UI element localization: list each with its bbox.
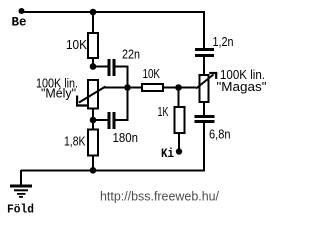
resistor 10K (horizontal, wiper line) <box>142 84 163 91</box>
wire right rail top corner down to 1,2n <box>203 11 205 49</box>
svg-text:Föld: Föld <box>7 203 34 217</box>
resistor 10K (vertical, left branch) <box>88 33 98 58</box>
wire 22n right plate to vertical riser <box>116 66 129 68</box>
junction ground rail / 1,8K <box>90 167 97 174</box>
svg-text:"Mély": "Mély" <box>41 86 76 101</box>
wire R10K bottom to junction A <box>92 58 94 67</box>
svg-text:6,8n: 6,8n <box>209 127 231 142</box>
potentiometer bass wiper arrow diagonal <box>79 87 106 103</box>
svg-text:http://bss.freeweb.hu/: http://bss.freeweb.hu/ <box>100 190 220 204</box>
wire top junction down to R 10K <box>92 11 94 33</box>
junction top of left branch <box>90 9 97 16</box>
junction riser on wiper line <box>124 84 131 91</box>
wire treble pot bottom to 6,8n <box>203 102 205 116</box>
capacitor 6,8n <box>195 115 215 123</box>
potentiometer treble arrowhead <box>209 72 217 79</box>
ground symbol <box>10 185 32 198</box>
wire top rail from Be to right corner <box>21 11 204 13</box>
potentiometer bass arrowhead <box>76 96 87 107</box>
wire junction A to 22n left plate <box>93 66 108 68</box>
wire ground stub down from rail <box>20 170 22 185</box>
svg-text:10K: 10K <box>66 37 87 52</box>
capacitor 180n <box>108 112 116 129</box>
svg-text:1,2n: 1,2n <box>213 34 234 49</box>
svg-text:10K: 10K <box>143 66 161 81</box>
wire 1K bottom to Ki terminal <box>178 133 180 152</box>
node Ki output terminal dot <box>176 148 182 154</box>
wire 180n right plate to vertical riser <box>116 119 129 121</box>
node Be input terminal dot <box>19 8 25 14</box>
wire 6,8n bottom down to ground rail <box>203 123 205 172</box>
potentiometer treble wiper arrow diagonal <box>196 75 214 89</box>
wire junction C down to R 1K <box>178 88 180 108</box>
svg-text:180n: 180n <box>113 130 139 145</box>
potentiometer 100K lin. "Magas" (treble) body <box>200 75 209 102</box>
svg-text:Be: Be <box>12 16 27 30</box>
resistor 1,8K <box>88 130 98 156</box>
svg-text:"Magas": "Magas" <box>217 79 267 94</box>
wire ground rail (bottom) <box>21 169 204 171</box>
wire junction B to 180n left plate <box>93 119 108 121</box>
svg-text:1K: 1K <box>158 104 169 119</box>
potentiometer 100K lin. "Mely" (bass) body <box>88 80 98 109</box>
wire vertical riser x127.5 joining 22n, wiper line, 180n <box>127 67 129 121</box>
svg-text:22n: 22n <box>122 47 140 62</box>
wire pot bottom to junction B <box>92 109 94 130</box>
wire 1,2n bottom to treble pot top <box>203 57 205 76</box>
capacitor 22n <box>108 59 116 76</box>
junction C (wiper line / 1K output) <box>175 84 182 91</box>
wire 1,8K bottom lead to ground rail <box>92 156 94 171</box>
wire wiper line (bass wiper to treble wiper) <box>104 87 196 89</box>
junction A (10K / pot top / 22n) <box>90 63 97 70</box>
svg-text:Ki: Ki <box>161 147 174 161</box>
junction B (pot bottom / 180n / 1,8K) <box>90 117 97 124</box>
capacitor 1,2n <box>195 48 214 57</box>
resistor 1K <box>175 107 185 133</box>
svg-text:1,8K: 1,8K <box>64 134 86 149</box>
